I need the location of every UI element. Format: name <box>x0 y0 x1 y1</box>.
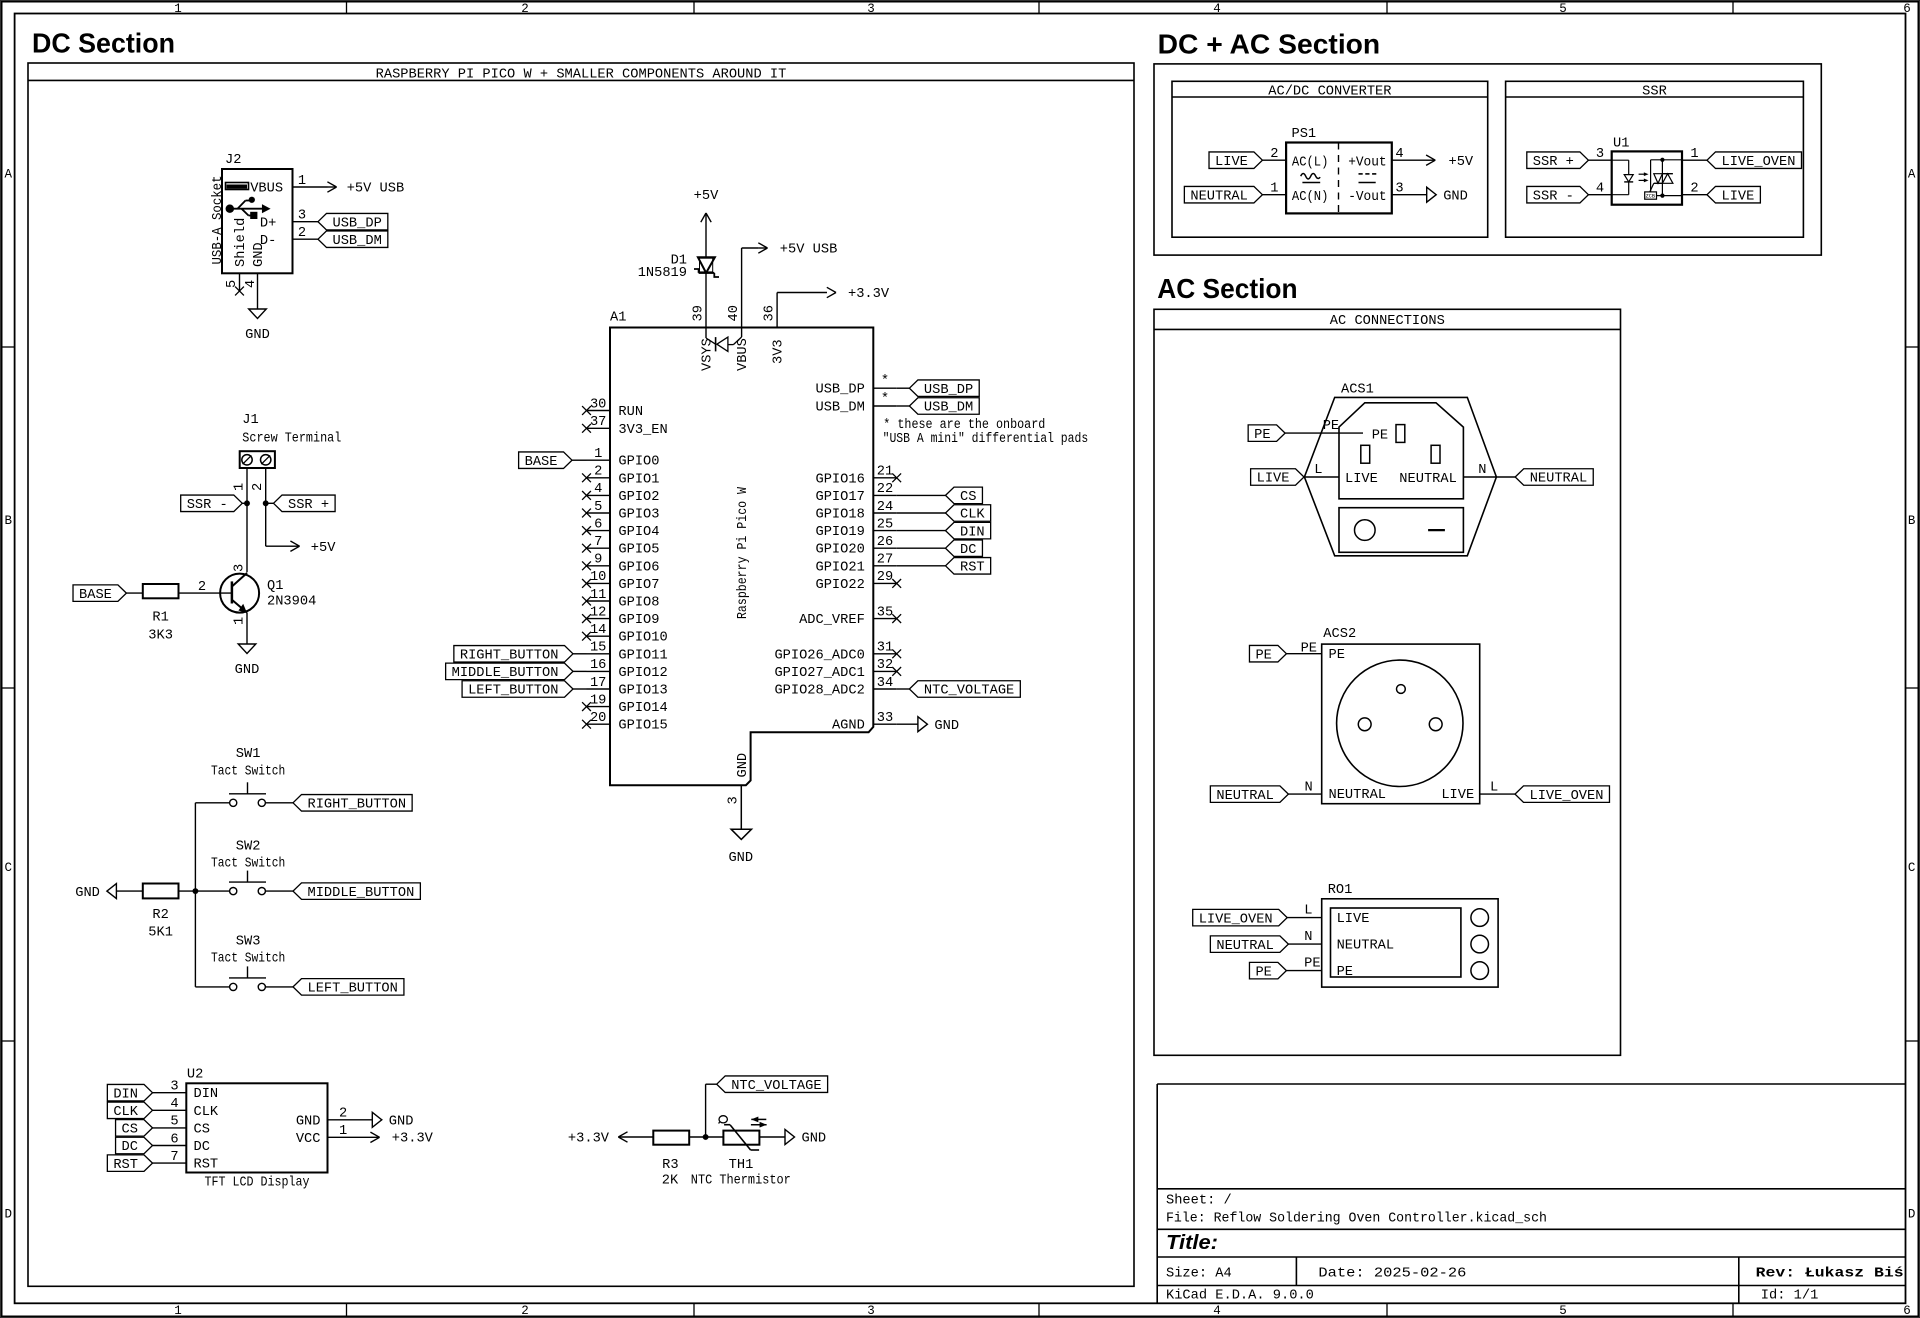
svg-text:NEUTRAL: NEUTRAL <box>1216 939 1274 954</box>
svg-text:DC: DC <box>194 1140 210 1155</box>
svg-text:TFT LCD Display: TFT LCD Display <box>205 1175 310 1190</box>
svg-text:1: 1 <box>233 617 248 625</box>
svg-text:GPIO26_ADC0: GPIO26_ADC0 <box>774 648 864 663</box>
svg-text:35: 35 <box>877 605 893 620</box>
svg-text:GND: GND <box>389 1115 414 1130</box>
svg-text:SSR -: SSR - <box>1533 189 1574 204</box>
svg-text:3: 3 <box>298 208 306 223</box>
svg-text:11: 11 <box>590 588 606 603</box>
svg-text:26: 26 <box>877 535 893 550</box>
svg-text:1: 1 <box>174 2 182 16</box>
svg-text:3: 3 <box>867 2 875 16</box>
svg-text:25: 25 <box>877 517 893 532</box>
svg-text:SSR +: SSR + <box>288 498 329 513</box>
svg-text:GND: GND <box>1443 189 1468 204</box>
svg-text:USB_DP: USB_DP <box>816 383 865 398</box>
svg-text:5: 5 <box>594 500 602 515</box>
svg-text:3V3_EN: 3V3_EN <box>618 423 667 438</box>
svg-text:File: Reflow Soldering Oven Co: File: Reflow Soldering Oven Controller.k… <box>1166 1211 1547 1226</box>
svg-text:GND: GND <box>736 753 751 778</box>
svg-text:R3: R3 <box>662 1158 678 1173</box>
svg-text:VCC: VCC <box>296 1132 321 1147</box>
svg-text:16: 16 <box>590 658 606 673</box>
svg-text:Tact Switch: Tact Switch <box>211 952 285 967</box>
svg-text:3: 3 <box>1395 182 1403 197</box>
svg-text:2K: 2K <box>662 1173 679 1188</box>
svg-text:RO1: RO1 <box>1328 883 1353 898</box>
svg-text:ACS1: ACS1 <box>1341 382 1374 397</box>
svg-text:PE: PE <box>1329 648 1345 663</box>
svg-text:4: 4 <box>170 1097 178 1112</box>
svg-text:3: 3 <box>170 1080 178 1095</box>
svg-text:Shield: Shield <box>234 218 249 267</box>
svg-text:RST: RST <box>960 561 985 576</box>
svg-text:Title:: Title: <box>1166 1232 1218 1254</box>
svg-text:2: 2 <box>298 226 306 241</box>
svg-text:Raspberry Pi Pico W: Raspberry Pi Pico W <box>736 486 751 619</box>
svg-text:4: 4 <box>1213 2 1221 16</box>
svg-text:4: 4 <box>1596 182 1604 197</box>
svg-text:ADC_VREF: ADC_VREF <box>799 613 865 628</box>
svg-text:GPIO14: GPIO14 <box>618 701 667 716</box>
svg-text:CLK: CLK <box>194 1105 219 1120</box>
svg-text:Size: A4: Size: A4 <box>1166 1266 1232 1281</box>
svg-text:A: A <box>4 168 12 182</box>
svg-text:LIVE_OVEN: LIVE_OVEN <box>1722 155 1796 170</box>
svg-text:1: 1 <box>174 1304 182 1318</box>
svg-text:2: 2 <box>251 483 266 491</box>
svg-text:14: 14 <box>590 623 606 638</box>
svg-text:"USB A mini" differential pads: "USB A mini" differential pads <box>883 432 1089 447</box>
svg-text:+5V: +5V <box>694 189 719 204</box>
svg-text:GPIO9: GPIO9 <box>618 613 659 628</box>
svg-text:RIGHT_BUTTON: RIGHT_BUTTON <box>308 798 407 813</box>
svg-text:7: 7 <box>594 535 602 550</box>
svg-text:LEFT_BUTTON: LEFT_BUTTON <box>308 982 398 997</box>
svg-text:2N3904: 2N3904 <box>267 595 316 610</box>
svg-text:-Vout: -Vout <box>1348 190 1386 205</box>
svg-text:LIVE: LIVE <box>1722 189 1755 204</box>
svg-text:29: 29 <box>877 570 893 585</box>
svg-text:RASPBERRY PI PICO W + SMALLER: RASPBERRY PI PICO W + SMALLER COMPONENTS… <box>376 67 787 82</box>
svg-text:4: 4 <box>594 482 602 497</box>
svg-text:6: 6 <box>594 517 602 532</box>
svg-text:SSR: SSR <box>1642 84 1667 99</box>
svg-text:1: 1 <box>233 483 248 491</box>
svg-text:+Vout: +Vout <box>1348 155 1386 170</box>
svg-text:SW1: SW1 <box>236 747 261 762</box>
svg-text:PE: PE <box>1255 965 1271 980</box>
svg-text:VBUS: VBUS <box>250 182 283 197</box>
svg-text:6: 6 <box>1903 2 1911 16</box>
svg-text:2: 2 <box>1270 147 1278 162</box>
svg-text:GPIO16: GPIO16 <box>816 472 865 487</box>
svg-text:21: 21 <box>877 465 893 480</box>
svg-text:LIVE_OVEN: LIVE_OVEN <box>1199 912 1273 927</box>
svg-text:CLK: CLK <box>960 508 985 523</box>
svg-text:5: 5 <box>1559 1304 1567 1318</box>
svg-text:AC/DC CONVERTER: AC/DC CONVERTER <box>1268 84 1391 99</box>
svg-text:GPIO8: GPIO8 <box>618 596 659 611</box>
svg-text:DIN: DIN <box>113 1087 138 1102</box>
svg-text:GPIO6: GPIO6 <box>618 560 659 575</box>
svg-text:USB-A Socket: USB-A Socket <box>211 176 226 265</box>
svg-text:1: 1 <box>1270 182 1278 197</box>
svg-text:NTC_VOLTAGE: NTC_VOLTAGE <box>731 1079 821 1094</box>
svg-text:NEUTRAL: NEUTRAL <box>1337 939 1395 954</box>
svg-text:LIVE: LIVE <box>1345 472 1378 487</box>
svg-text:AGND: AGND <box>832 719 865 734</box>
svg-text:PS1: PS1 <box>1292 127 1317 142</box>
svg-text:GND: GND <box>252 242 267 267</box>
svg-text:C: C <box>1908 861 1916 875</box>
svg-text:1: 1 <box>298 174 306 189</box>
svg-text:CS: CS <box>194 1122 210 1137</box>
svg-text:ZCB: ZCB <box>1646 193 1655 199</box>
svg-text:N: N <box>1478 463 1486 478</box>
svg-text:GPIO10: GPIO10 <box>618 631 667 646</box>
svg-text:+3.3V: +3.3V <box>568 1132 610 1147</box>
svg-text:2: 2 <box>521 2 529 16</box>
svg-text:RUN: RUN <box>618 405 643 420</box>
svg-text:NEUTRAL: NEUTRAL <box>1190 189 1248 204</box>
svg-text:LIVE: LIVE <box>1257 472 1290 487</box>
svg-text:L: L <box>1490 781 1498 796</box>
svg-text:GPIO13: GPIO13 <box>618 684 667 699</box>
svg-text:AC CONNECTIONS: AC CONNECTIONS <box>1330 314 1445 329</box>
svg-text:1: 1 <box>594 447 602 462</box>
svg-text:VBUS: VBUS <box>736 338 751 371</box>
svg-text:SSR +: SSR + <box>1533 155 1574 170</box>
svg-text:1N5819: 1N5819 <box>638 266 687 281</box>
svg-text:Q1: Q1 <box>267 579 283 594</box>
svg-text:Screw Terminal: Screw Terminal <box>242 432 341 447</box>
svg-text:19: 19 <box>590 693 606 708</box>
svg-text:USB_DM: USB_DM <box>333 234 382 249</box>
svg-text:3: 3 <box>867 1304 875 1318</box>
svg-text:D+: D+ <box>260 216 276 231</box>
svg-text:3V3: 3V3 <box>772 339 787 364</box>
svg-text:N: N <box>1305 781 1313 796</box>
svg-text:AC(N): AC(N) <box>1292 190 1329 205</box>
svg-text:+5V USB: +5V USB <box>780 243 838 258</box>
svg-text:NEUTRAL: NEUTRAL <box>1399 472 1457 487</box>
svg-text:DC Section: DC Section <box>32 27 175 58</box>
svg-text:2: 2 <box>339 1107 347 1122</box>
svg-text:GPIO1: GPIO1 <box>618 472 659 487</box>
svg-text:TH1: TH1 <box>729 1158 754 1173</box>
svg-text:LIVE: LIVE <box>1337 912 1370 927</box>
svg-text:4: 4 <box>1213 1304 1221 1318</box>
svg-text:DIN: DIN <box>194 1087 219 1102</box>
svg-text:GPIO27_ADC1: GPIO27_ADC1 <box>774 666 864 681</box>
svg-text:NEUTRAL: NEUTRAL <box>1329 788 1387 803</box>
svg-text:D: D <box>4 1208 12 1222</box>
svg-text:7: 7 <box>170 1150 178 1165</box>
svg-text:R2: R2 <box>152 908 168 923</box>
svg-text:D: D <box>1908 1208 1916 1222</box>
svg-text:GND: GND <box>802 1132 827 1147</box>
svg-text:USB_DM: USB_DM <box>816 401 865 416</box>
svg-text:4: 4 <box>244 280 259 288</box>
svg-text:PE: PE <box>1254 428 1270 443</box>
svg-text:GPIO19: GPIO19 <box>816 525 865 540</box>
svg-text:RST: RST <box>113 1158 138 1173</box>
svg-text:PE: PE <box>1255 648 1271 663</box>
svg-text:R1: R1 <box>152 610 168 625</box>
svg-text:MIDDLE_BUTTON: MIDDLE_BUTTON <box>308 886 415 901</box>
svg-text:34: 34 <box>877 676 893 691</box>
svg-text:DIN: DIN <box>960 525 985 540</box>
svg-text:33: 33 <box>877 711 893 726</box>
svg-text:24: 24 <box>877 500 893 515</box>
svg-text:DC: DC <box>960 543 976 558</box>
svg-text:NEUTRAL: NEUTRAL <box>1530 472 1588 487</box>
svg-text:GPIO15: GPIO15 <box>618 719 667 734</box>
svg-text:SW2: SW2 <box>236 839 261 854</box>
svg-text:Rev: Łukasz Biś: Rev: Łukasz Biś <box>1756 1266 1904 1281</box>
svg-text:*: * <box>881 374 889 389</box>
svg-text:GPIO4: GPIO4 <box>618 525 659 540</box>
svg-text:12: 12 <box>590 605 606 620</box>
svg-text:GPIO28_ADC2: GPIO28_ADC2 <box>774 684 864 699</box>
svg-text:SSR -: SSR - <box>187 498 228 513</box>
svg-text:DC + AC Section: DC + AC Section <box>1158 29 1381 60</box>
svg-text:3: 3 <box>1596 147 1604 162</box>
svg-text:NTC Thermistor: NTC Thermistor <box>691 1173 791 1188</box>
svg-text:AC(L): AC(L) <box>1292 155 1329 170</box>
svg-text:SW3: SW3 <box>236 935 261 950</box>
svg-text:30: 30 <box>590 397 606 412</box>
svg-text:1: 1 <box>339 1124 347 1139</box>
svg-text:C: C <box>4 861 12 875</box>
svg-text:BASE: BASE <box>79 588 112 603</box>
svg-text:NEUTRAL: NEUTRAL <box>1216 789 1274 804</box>
svg-text:GND: GND <box>235 663 260 678</box>
svg-text:PE: PE <box>1301 641 1317 656</box>
svg-text:L: L <box>1314 463 1322 478</box>
svg-text:RIGHT_BUTTON: RIGHT_BUTTON <box>460 649 559 664</box>
svg-text:L: L <box>1304 903 1312 918</box>
svg-text:AC Section: AC Section <box>1157 273 1297 304</box>
svg-text:Sheet: /: Sheet: / <box>1166 1193 1232 1208</box>
svg-text:J2: J2 <box>225 153 241 168</box>
svg-text:GPIO18: GPIO18 <box>816 508 865 523</box>
svg-text:+5V: +5V <box>311 541 336 556</box>
svg-text:PE: PE <box>1323 419 1339 434</box>
svg-text:CS: CS <box>960 490 976 505</box>
svg-text:GPIO17: GPIO17 <box>816 490 865 505</box>
svg-text:22: 22 <box>877 482 893 497</box>
svg-text:NTC_VOLTAGE: NTC_VOLTAGE <box>924 684 1014 699</box>
svg-text:+5V USB: +5V USB <box>347 182 405 197</box>
svg-text:31: 31 <box>877 641 893 656</box>
svg-text:USB_DM: USB_DM <box>924 401 973 416</box>
svg-text:GND: GND <box>934 719 959 734</box>
svg-text:GPIO7: GPIO7 <box>618 578 659 593</box>
svg-text:KiCad E.D.A. 9.0.0: KiCad E.D.A. 9.0.0 <box>1166 1289 1314 1304</box>
svg-text:+3.3V: +3.3V <box>392 1132 434 1147</box>
svg-text:Id: 1/1: Id: 1/1 <box>1761 1289 1819 1304</box>
svg-text:B: B <box>4 514 12 528</box>
svg-text:GPIO21: GPIO21 <box>816 560 865 575</box>
svg-text:39: 39 <box>692 305 707 321</box>
svg-text:2: 2 <box>1690 182 1698 197</box>
svg-text:2: 2 <box>198 580 206 595</box>
svg-text:B: B <box>1908 514 1916 528</box>
svg-text:5: 5 <box>170 1115 178 1130</box>
svg-text:GPIO2: GPIO2 <box>618 490 659 505</box>
svg-text:GPIO3: GPIO3 <box>618 508 659 523</box>
svg-text:GND: GND <box>728 851 753 866</box>
svg-text:2: 2 <box>594 465 602 480</box>
svg-text:32: 32 <box>877 658 893 673</box>
svg-text:37: 37 <box>590 415 606 430</box>
svg-text:15: 15 <box>590 641 606 656</box>
svg-text:+5V: +5V <box>1449 155 1474 170</box>
svg-text:4: 4 <box>1395 147 1403 162</box>
svg-text:27: 27 <box>877 553 893 568</box>
svg-text:20: 20 <box>590 711 606 726</box>
svg-text:17: 17 <box>590 676 606 691</box>
svg-text:USB_DP: USB_DP <box>924 383 973 398</box>
svg-text:RST: RST <box>194 1158 219 1173</box>
svg-text:*: * <box>881 392 889 407</box>
svg-text:3: 3 <box>727 796 742 804</box>
svg-text:PE: PE <box>1337 965 1353 980</box>
svg-text:5: 5 <box>1559 2 1567 16</box>
svg-text:ACS2: ACS2 <box>1323 627 1356 642</box>
svg-text:GPIO20: GPIO20 <box>816 543 865 558</box>
svg-text:9: 9 <box>594 553 602 568</box>
svg-text:GPIO22: GPIO22 <box>816 578 865 593</box>
svg-text:GND: GND <box>296 1114 321 1129</box>
svg-text:+3.3V: +3.3V <box>848 287 890 302</box>
svg-text:GPIO11: GPIO11 <box>618 648 667 663</box>
svg-text:A1: A1 <box>610 311 626 326</box>
svg-text:LIVE: LIVE <box>1441 788 1474 803</box>
svg-text:Tact Switch: Tact Switch <box>211 765 285 780</box>
svg-text:GPIO5: GPIO5 <box>618 543 659 558</box>
svg-text:5K1: 5K1 <box>148 926 173 941</box>
svg-text:N: N <box>1304 930 1312 945</box>
svg-text:DC: DC <box>122 1140 138 1155</box>
svg-text:36: 36 <box>763 305 778 321</box>
svg-text:BASE: BASE <box>525 455 558 470</box>
svg-text:GPIO0: GPIO0 <box>618 455 659 470</box>
svg-text:J1: J1 <box>242 413 258 428</box>
svg-text:U2: U2 <box>187 1068 203 1083</box>
svg-text:6: 6 <box>170 1132 178 1147</box>
svg-text:LEFT_BUTTON: LEFT_BUTTON <box>468 684 558 699</box>
svg-text:USB_DP: USB_DP <box>333 216 382 231</box>
svg-text:U1: U1 <box>1613 137 1629 152</box>
svg-text:1: 1 <box>1690 147 1698 162</box>
svg-text:MIDDLE_BUTTON: MIDDLE_BUTTON <box>452 666 559 681</box>
svg-text:LIVE: LIVE <box>1215 155 1248 170</box>
svg-text:A: A <box>1908 168 1916 182</box>
svg-text:40: 40 <box>727 305 742 321</box>
svg-text:10: 10 <box>590 570 606 585</box>
svg-text:CS: CS <box>122 1123 138 1138</box>
svg-text:5: 5 <box>225 280 240 288</box>
svg-text:GPIO12: GPIO12 <box>618 666 667 681</box>
svg-text:GND: GND <box>245 328 270 343</box>
svg-text:LIVE_OVEN: LIVE_OVEN <box>1530 789 1604 804</box>
svg-text:6: 6 <box>1903 1304 1911 1318</box>
svg-text:PE: PE <box>1372 428 1388 443</box>
svg-text:3K3: 3K3 <box>148 629 173 644</box>
svg-text:3: 3 <box>233 564 248 572</box>
svg-text:2: 2 <box>521 1304 529 1318</box>
svg-text:PE: PE <box>1304 956 1320 971</box>
svg-text:Tact Switch: Tact Switch <box>211 856 285 871</box>
svg-text:GND: GND <box>75 886 100 901</box>
svg-text:Date: 2025-02-26: Date: 2025-02-26 <box>1318 1266 1466 1281</box>
svg-text:CLK: CLK <box>113 1105 138 1120</box>
